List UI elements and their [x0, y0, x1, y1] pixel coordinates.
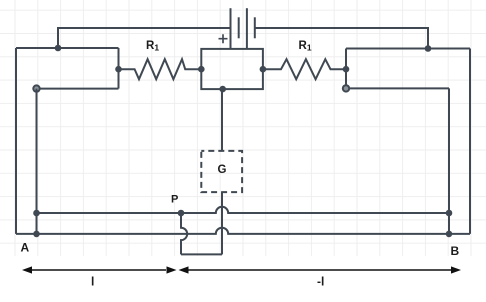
svg-text:l: l [91, 275, 94, 289]
node junction at (36.5,233.9) [33, 231, 40, 238]
battery B1 short plate 1 [238, 17, 240, 38]
node junction at (346,69.2) [343, 66, 350, 73]
battery B1 short plate 2 [254, 17, 256, 38]
node junction P at (181,213) [178, 210, 185, 217]
svg-text:R1: R1 [299, 40, 312, 53]
wire top left segment [58, 28, 231, 48]
svg-text:P: P [171, 194, 178, 206]
svg-text:G: G [218, 164, 227, 176]
wire right resistor branch vertical [345, 49, 347, 89]
cell box [201, 49, 263, 89]
wire right outer vertical [469, 49, 471, 234]
wire left resistor branch vertical [118, 48, 120, 89]
wire jockey leg from P (hops over lower wire) [181, 213, 187, 254]
svg-text:-l: -l [317, 275, 324, 289]
wire from galvanometer down [221, 192, 223, 254]
wire left lower horizontal to terminal [37, 88, 119, 90]
node junction at (36.5,213) [33, 210, 40, 217]
node junction at (222.7,89.1) [219, 86, 226, 93]
svg-text:A: A [21, 241, 30, 255]
resistor R1 right [263, 59, 346, 79]
wire right inner vertical [448, 88, 450, 234]
node junction at (58,48) [55, 45, 62, 52]
wire top right segment [255, 28, 428, 49]
wire lower bottom (with hop over G wire) [16, 228, 470, 234]
wire right lower horizontal from terminal [346, 87, 449, 89]
node junction at (449,213) [446, 210, 453, 217]
wire left outer vertical [15, 48, 17, 234]
battery B1 long plate 2 [246, 8, 248, 49]
terminal post left [33, 85, 39, 91]
node junction at (449,233.9) [446, 231, 453, 238]
wire upper bottom (with hop over G wire) [37, 207, 450, 213]
svg-text:R1: R1 [146, 40, 159, 53]
wire jockey bottom [181, 253, 222, 255]
wire left inner vertical [36, 89, 38, 234]
wire left upper horizontal [16, 47, 119, 49]
svg-text:B: B [451, 244, 460, 258]
wire right upper horizontal [346, 48, 470, 50]
node junction at (428,48.5) [425, 45, 432, 52]
node junction at (262.9,69.2) [260, 66, 267, 73]
dimension arrow -l (P to B) [188, 269, 451, 271]
wire from cell box to galvanometer [221, 89, 223, 151]
terminal post right [343, 85, 349, 91]
battery B1 long plate 1 [230, 8, 232, 49]
node junction at (118.5,69.2) [115, 66, 122, 73]
battery plus sign [219, 34, 228, 43]
node junction at (201.3,69.2) [198, 66, 205, 73]
galvanometer G dashed box [201, 151, 242, 192]
dimension arrow l (A to P) [31, 269, 166, 271]
resistor R1 left [119, 59, 202, 79]
